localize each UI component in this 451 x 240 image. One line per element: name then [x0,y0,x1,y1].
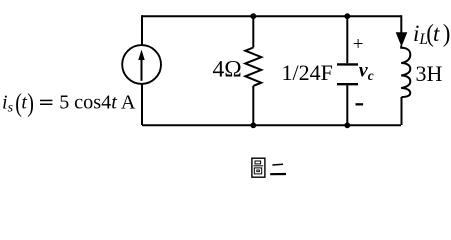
svg-text:5: 5 [59,91,69,113]
svg-text:): ) [27,89,34,118]
svg-text:1/24F: 1/24F [282,60,333,85]
svg-text:+: + [353,34,364,55]
svg-text:vc: vc [359,59,374,83]
svg-text:t: t [21,91,27,113]
svg-text:): ) [443,19,451,47]
svg-text:3H: 3H [416,61,443,86]
svg-text:t: t [433,21,440,46]
svg-text:cos4t A: cos4t A [74,91,136,113]
svg-text:4Ω: 4Ω [213,56,242,82]
svg-text:is: is [2,91,14,115]
